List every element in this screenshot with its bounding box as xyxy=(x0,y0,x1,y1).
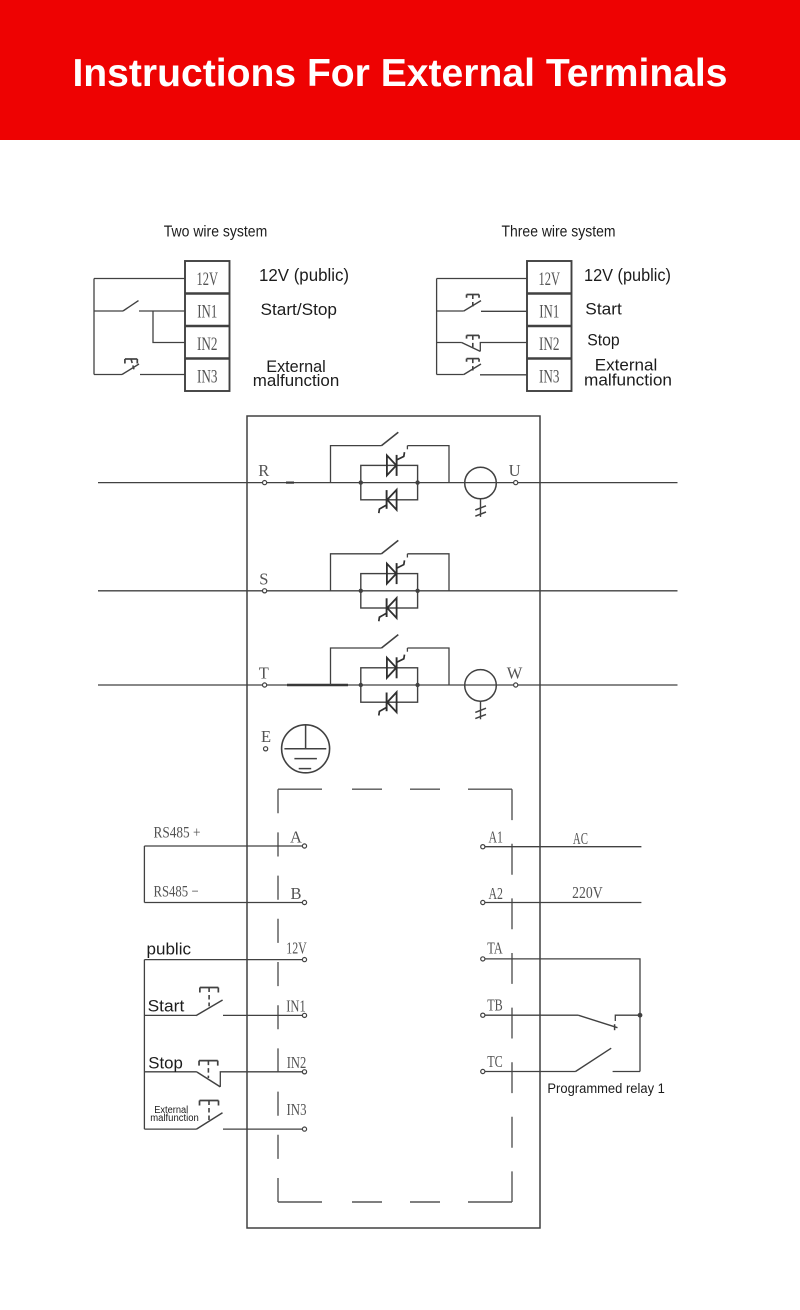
svg-text:Stop: Stop xyxy=(587,331,620,350)
svg-text:12V (public): 12V (public) xyxy=(584,265,671,285)
svg-text:A2: A2 xyxy=(488,884,503,903)
svg-text:12V: 12V xyxy=(197,269,219,290)
svg-text:TA: TA xyxy=(487,939,503,958)
svg-text:B: B xyxy=(290,884,301,903)
svg-text:malfunction: malfunction xyxy=(584,371,672,390)
svg-text:malfunction: malfunction xyxy=(253,371,340,390)
svg-text:T: T xyxy=(259,664,269,683)
svg-text:W: W xyxy=(507,664,523,683)
svg-text:12V: 12V xyxy=(286,939,307,958)
svg-text:IN1: IN1 xyxy=(539,302,559,323)
svg-text:A1: A1 xyxy=(488,828,503,847)
svg-text:U: U xyxy=(509,461,521,480)
svg-text:public: public xyxy=(147,941,192,959)
svg-text:E: E xyxy=(261,727,271,746)
svg-text:TC: TC xyxy=(487,1052,503,1071)
svg-text:IN3: IN3 xyxy=(287,1100,307,1119)
svg-text:IN2: IN2 xyxy=(287,1053,307,1072)
svg-text:12V (public): 12V (public) xyxy=(259,265,349,285)
svg-text:IN3: IN3 xyxy=(539,367,560,388)
svg-text:IN2: IN2 xyxy=(539,334,560,355)
svg-text:Start: Start xyxy=(148,997,185,1016)
svg-text:Start/Stop: Start/Stop xyxy=(261,300,338,319)
svg-text:AC: AC xyxy=(573,829,588,848)
svg-text:malfunction: malfunction xyxy=(150,1113,199,1124)
svg-text:RS485 +: RS485 + xyxy=(154,825,201,842)
svg-text:TB: TB xyxy=(487,996,503,1015)
svg-text:R: R xyxy=(258,461,269,480)
svg-text:12V: 12V xyxy=(539,269,561,290)
svg-text:Start: Start xyxy=(585,300,622,319)
svg-text:Stop: Stop xyxy=(148,1054,183,1073)
svg-text:220V: 220V xyxy=(572,883,603,902)
svg-text:A: A xyxy=(290,828,302,847)
svg-text:IN1: IN1 xyxy=(197,302,217,323)
svg-text:IN1: IN1 xyxy=(286,997,306,1016)
svg-text:Three wire system: Three wire system xyxy=(502,224,616,241)
svg-text:RS485 −: RS485 − xyxy=(154,884,199,901)
svg-text:S: S xyxy=(259,569,268,588)
svg-text:IN3: IN3 xyxy=(197,367,218,388)
svg-text:Two wire system: Two wire system xyxy=(164,224,268,241)
svg-text:Programmed relay 1: Programmed relay 1 xyxy=(547,1081,665,1096)
svg-text:IN2: IN2 xyxy=(197,334,218,355)
